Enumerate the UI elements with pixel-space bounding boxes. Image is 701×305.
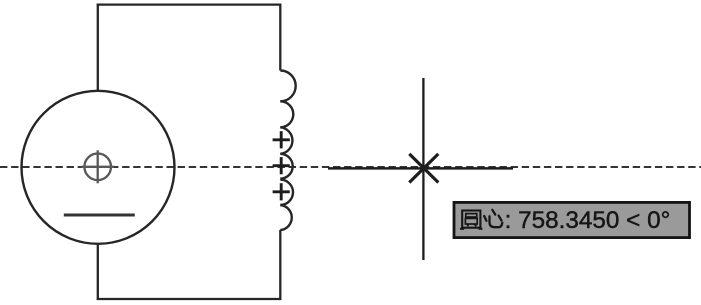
inductor L1 arc 1 [280,71,295,102]
wire left upper [97,4,99,92]
point marker P1 (cross) [273,131,290,148]
wire top [97,3,282,5]
wire left lower [97,244,99,301]
snap marker X [409,154,438,183]
tooltip glyph 心 [484,210,502,227]
inductor L1 arc 6 [280,205,291,230]
tooltip glyph 圆 [460,211,482,229]
point marker P2 (cross) [273,157,290,174]
source G1 circle [22,91,175,244]
crosshair cursor vertical [422,78,424,260]
centerline axis (dashed) [0,166,701,168]
inductor L1 arc 5 [280,180,293,205]
center point marker of source (circle with cross) [81,150,114,183]
inductor L1 arc 3 [280,127,292,154]
wire bottom [97,298,282,300]
inductor L1 arc 2 [280,101,293,127]
wire right lower [279,230,281,300]
battery plate inside source [64,214,135,217]
inductor L1 arc 4 [280,154,292,179]
svg-text:: 758.3450 < 0°: : 758.3450 < 0° [505,207,671,234]
point marker P3 (cross) [273,183,290,200]
tooltip box [454,202,690,237]
wire right upper [279,4,281,71]
crosshair cursor horizontal [328,167,513,170]
